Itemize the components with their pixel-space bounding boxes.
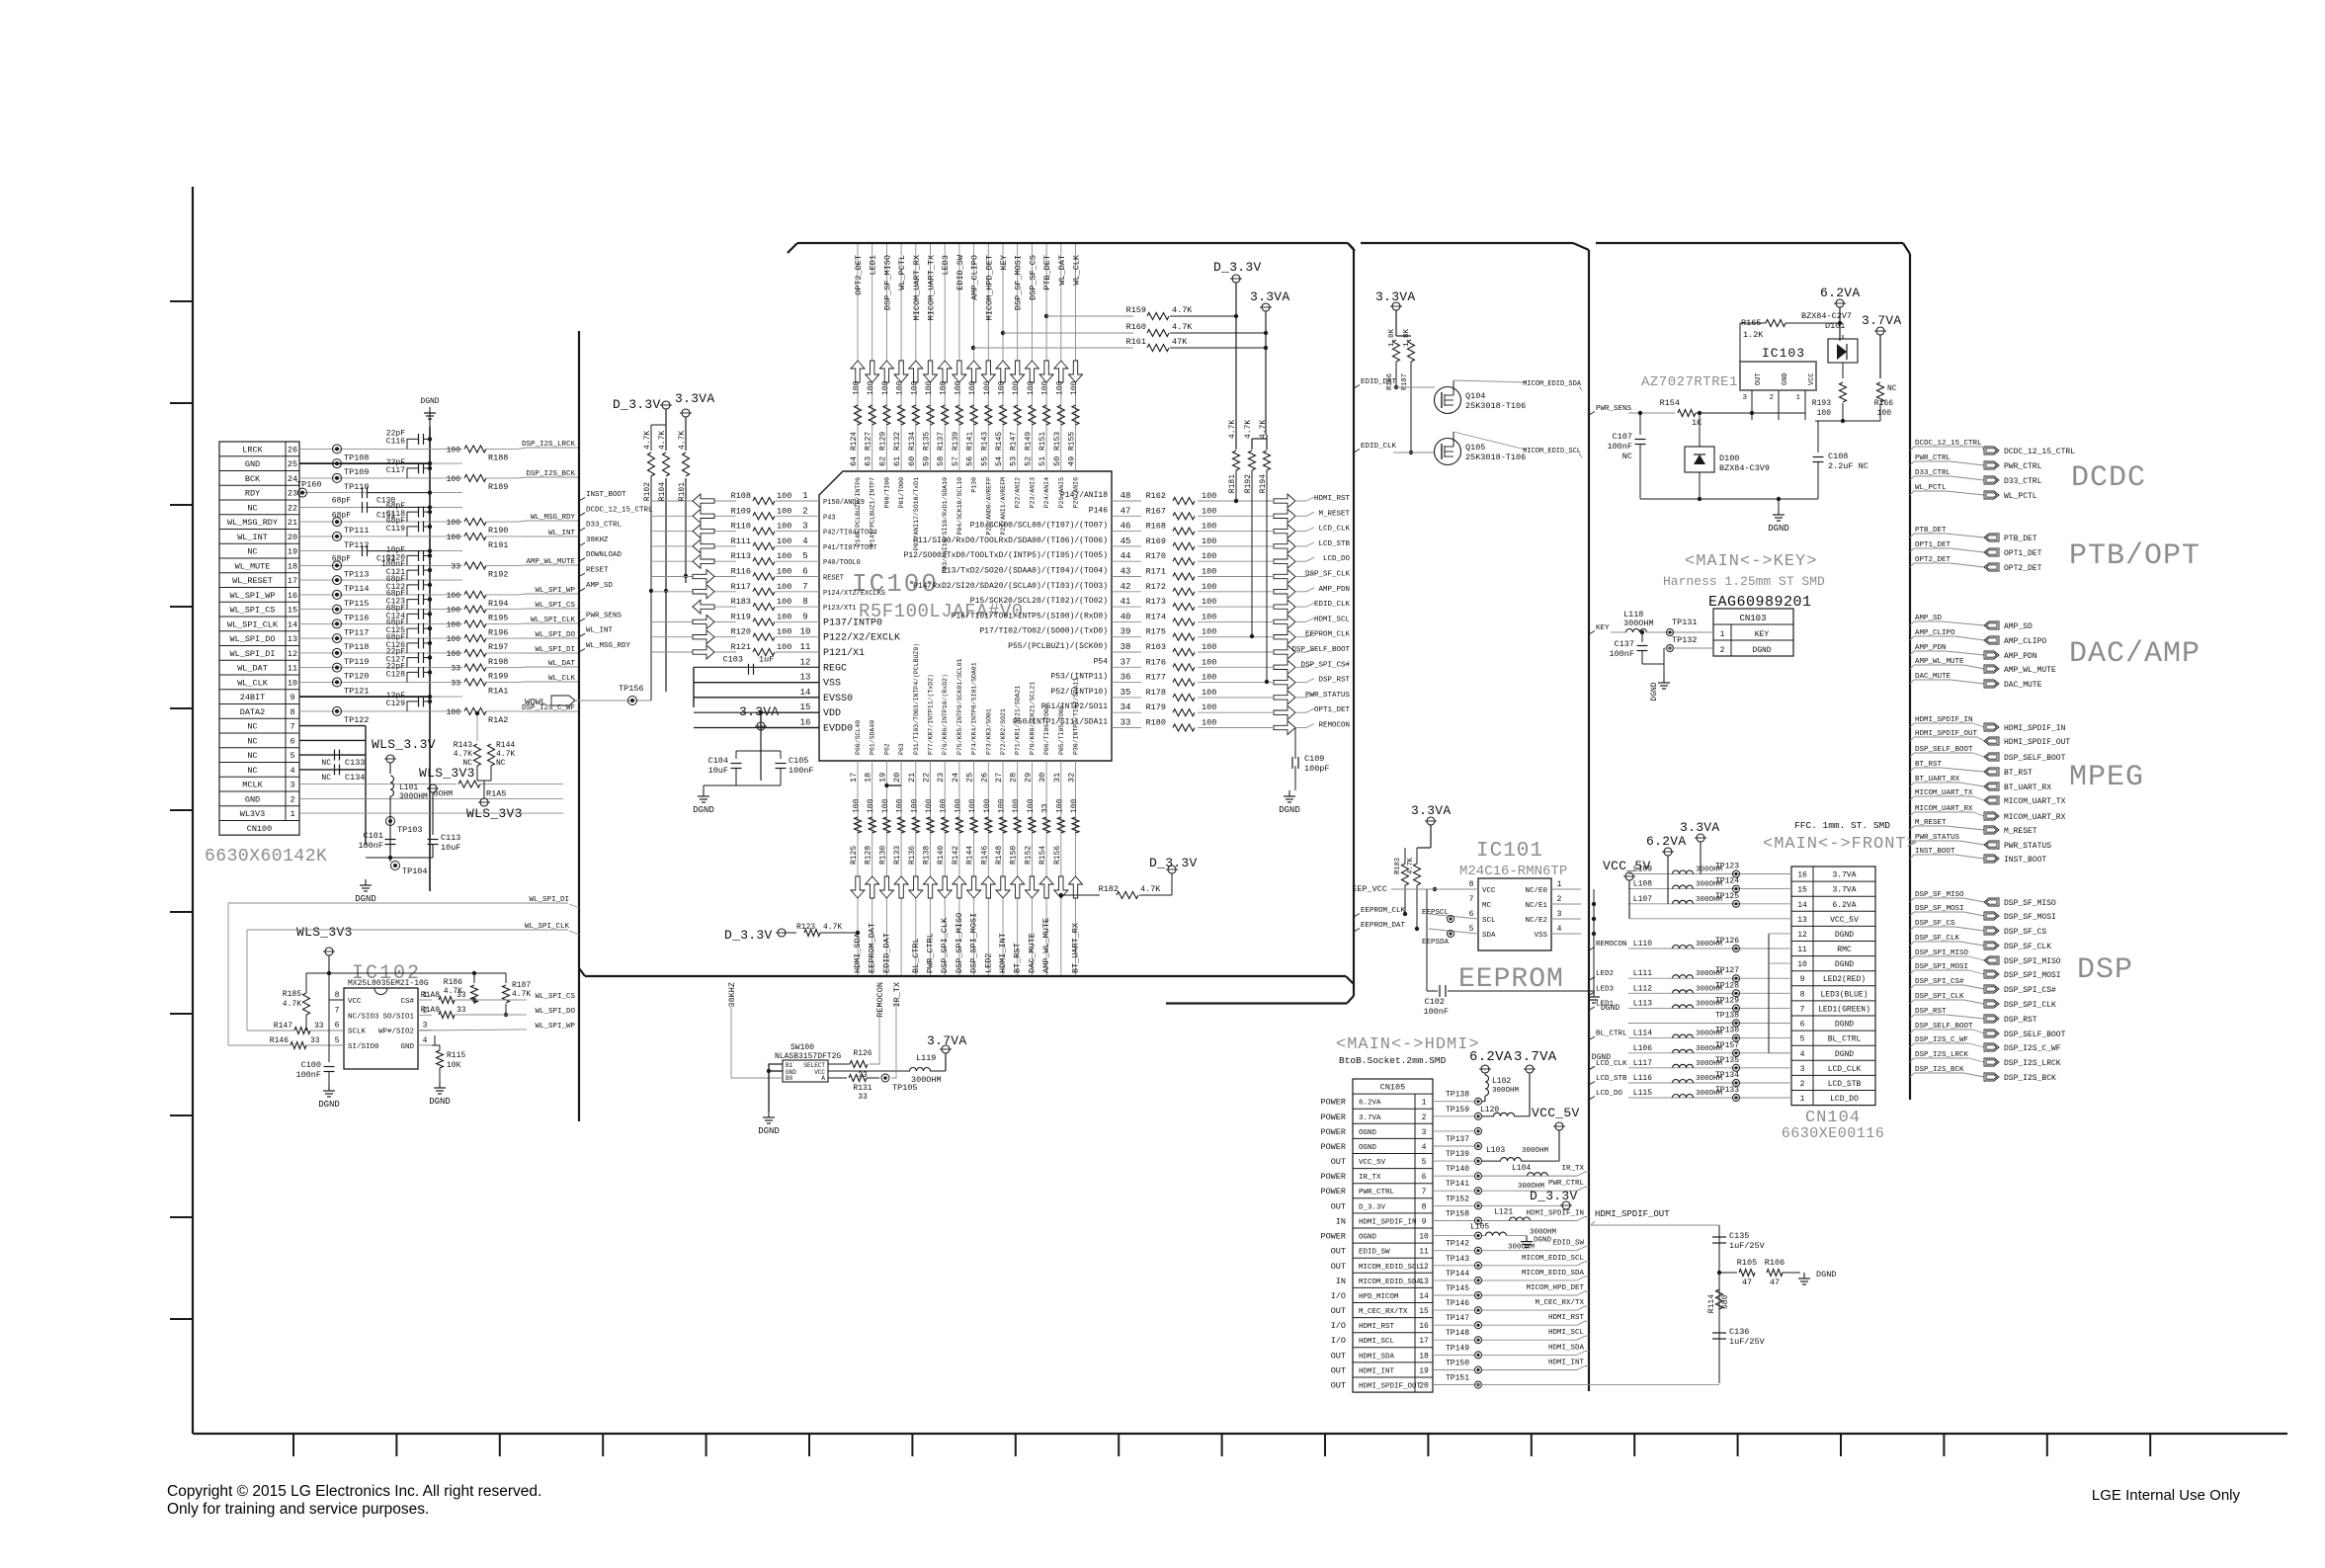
svg-text:C135: C135: [1729, 1231, 1749, 1241]
svg-text:R195: R195: [488, 614, 508, 623]
svg-text:1: 1: [1422, 1099, 1427, 1108]
svg-text:L112: L112: [1633, 984, 1652, 993]
svg-text:LCD_CLK: LCD_CLK: [1828, 1065, 1862, 1074]
svg-text:300OHM: 300OHM: [1522, 1147, 1549, 1155]
svg-text:TP137: TP137: [1446, 1135, 1469, 1144]
svg-text:R108: R108: [731, 491, 751, 501]
svg-text:R131: R131: [853, 1084, 872, 1093]
svg-text:R154: R154: [1660, 398, 1680, 408]
svg-text:R196: R196: [488, 627, 508, 637]
svg-text:L115: L115: [1633, 1089, 1652, 1098]
svg-text:DGND: DGND: [318, 1100, 340, 1110]
svg-text:D_3.3V: D_3.3V: [724, 928, 773, 943]
svg-text:33: 33: [314, 1022, 324, 1031]
svg-text:25K3018-T106: 25K3018-T106: [1465, 453, 1526, 462]
svg-text:R159: R159: [1126, 305, 1146, 315]
svg-text:R161: R161: [1126, 337, 1146, 347]
svg-text:6: 6: [1469, 910, 1474, 919]
svg-text:37: 37: [1121, 657, 1131, 667]
svg-text:TP113: TP113: [344, 569, 370, 579]
svg-text:DGND: DGND: [1835, 960, 1854, 969]
svg-text:100: 100: [447, 708, 461, 717]
svg-text:D33_CTRL: D33_CTRL: [586, 522, 623, 530]
svg-text:30: 30: [1038, 773, 1047, 783]
svg-text:TP147: TP147: [1446, 1314, 1469, 1323]
svg-text:L110: L110: [1633, 940, 1652, 949]
svg-text:5: 5: [290, 751, 294, 761]
svg-text:EEPSCL: EEPSCL: [1422, 909, 1450, 917]
svg-text:SI/SIO0: SI/SIO0: [348, 1043, 379, 1051]
svg-text:4.7K: 4.7K: [1244, 420, 1253, 439]
svg-text:HDMI_SCL: HDMI_SCL: [1359, 1338, 1395, 1346]
svg-text:PTB_DET: PTB_DET: [1042, 255, 1052, 290]
svg-text:P13/TxD2/SO20/(SDAA0)/(TI04)/(: P13/TxD2/SO20/(SDAA0)/(TI04)/(TO04): [942, 567, 1108, 576]
svg-text:P140/PCLBUZ0/INTP6: P140/PCLBUZ0/INTP6: [855, 477, 862, 546]
svg-text:HDMI_SDA: HDMI_SDA: [1548, 1344, 1585, 1352]
svg-text:100: 100: [853, 380, 862, 395]
svg-text:P121/X1: P121/X1: [823, 647, 865, 659]
svg-text:38KHZ: 38KHZ: [586, 536, 609, 544]
svg-text:WL_INT: WL_INT: [237, 533, 268, 542]
svg-text:WL_SPI_DI: WL_SPI_DI: [535, 646, 575, 654]
svg-text:DSP_I2S_C_WF: DSP_I2S_C_WF: [2004, 1044, 2061, 1053]
svg-text:33: 33: [451, 562, 460, 571]
svg-text:LED3: LED3: [1596, 985, 1615, 993]
svg-text:L117: L117: [1633, 1059, 1652, 1068]
svg-text:16: 16: [288, 591, 297, 601]
svg-text:25: 25: [288, 459, 297, 469]
svg-text:DGND: DGND: [420, 397, 439, 406]
svg-text:100: 100: [777, 551, 791, 561]
svg-text:DAC_MUTE: DAC_MUTE: [2004, 681, 2042, 690]
svg-text:EDID_DAT: EDID_DAT: [1361, 378, 1397, 386]
svg-text:100: 100: [447, 635, 461, 644]
svg-text:WL_SPI_DI: WL_SPI_DI: [230, 649, 276, 659]
svg-text:POWER: POWER: [1320, 1142, 1346, 1152]
svg-text:I/O: I/O: [1331, 1321, 1346, 1331]
svg-text:C100: C100: [301, 1060, 321, 1070]
svg-text:EEPROM_DAT: EEPROM_DAT: [1361, 922, 1406, 930]
svg-text:12: 12: [288, 649, 297, 659]
svg-text:MICOM_EDID_SDA: MICOM_EDID_SDA: [1359, 1279, 1422, 1286]
svg-text:21: 21: [907, 773, 917, 783]
svg-text:WLS_3V3: WLS_3V3: [419, 766, 475, 781]
svg-text:4: 4: [290, 766, 294, 776]
svg-text:EEPROM_CLK: EEPROM_CLK: [1305, 631, 1351, 639]
svg-text:58: 58: [936, 456, 946, 466]
svg-text:NC: NC: [496, 759, 506, 768]
svg-text:TP156: TP156: [619, 684, 644, 694]
svg-text:L120: L120: [1480, 1106, 1499, 1114]
svg-text:68pF: 68pF: [332, 497, 351, 506]
svg-text:EEPSDA: EEPSDA: [1422, 939, 1450, 947]
svg-text:28: 28: [1009, 773, 1019, 783]
svg-text:SW100: SW100: [790, 1043, 814, 1052]
svg-text:29: 29: [1023, 773, 1033, 783]
svg-text:3.3VA: 3.3VA: [675, 391, 715, 406]
svg-text:CN105: CN105: [1380, 1083, 1406, 1093]
svg-text:P15/SCK20/SCL20/(TI02)/(TO02): P15/SCK20/SCL20/(TI02)/(TO02): [970, 597, 1108, 606]
svg-text:PWR_CTRL: PWR_CTRL: [2004, 462, 2042, 471]
svg-text:3.3VA: 3.3VA: [1250, 289, 1290, 304]
svg-text:PWR_CTRL: PWR_CTRL: [1359, 1189, 1395, 1197]
svg-text:9: 9: [290, 693, 294, 702]
svg-text:R154: R154: [1038, 846, 1047, 865]
svg-text:18: 18: [1419, 1352, 1429, 1361]
svg-text:DSP_SF_MOSI: DSP_SF_MOSI: [1014, 255, 1024, 310]
svg-text:B1: B1: [786, 1062, 793, 1069]
svg-text:100: 100: [1055, 798, 1064, 813]
svg-text:HDMI_RST: HDMI_RST: [1548, 1314, 1585, 1322]
svg-text:100: 100: [777, 612, 791, 621]
svg-text:D100: D100: [1719, 454, 1739, 463]
svg-text:P06/TI06/TO06: P06/TI06/TO06: [1043, 704, 1050, 755]
svg-text:R194: R194: [488, 599, 508, 609]
svg-text:DSP_SPI_CLK: DSP_SPI_CLK: [2004, 1001, 2056, 1010]
svg-text:45: 45: [1121, 536, 1131, 546]
svg-text:100: 100: [1202, 612, 1216, 621]
svg-text:LCD_DO: LCD_DO: [1323, 555, 1351, 563]
svg-text:WL_SPI_CS: WL_SPI_CS: [230, 606, 276, 616]
svg-text:LED2: LED2: [1596, 970, 1614, 978]
svg-text:VSS: VSS: [823, 679, 841, 690]
svg-text:TP109: TP109: [344, 467, 370, 477]
svg-text:100: 100: [1202, 702, 1216, 712]
svg-text:17: 17: [288, 576, 297, 586]
svg-text:L104: L104: [1512, 1164, 1531, 1173]
svg-text:REMOCON: REMOCON: [1596, 941, 1627, 949]
svg-text:R151: R151: [1038, 432, 1047, 451]
svg-text:R155: R155: [1068, 432, 1077, 451]
svg-text:R117: R117: [731, 582, 751, 592]
svg-text:DGND: DGND: [1752, 646, 1771, 655]
svg-text:3.7VA: 3.7VA: [1359, 1114, 1381, 1122]
svg-text:EEPROM_DAT: EEPROM_DAT: [868, 923, 877, 973]
svg-text:RESET: RESET: [586, 567, 609, 575]
svg-text:R127: R127: [865, 432, 873, 451]
svg-text:SDA: SDA: [1482, 932, 1496, 940]
svg-text:BT_UART_RX: BT_UART_RX: [2004, 784, 2051, 792]
svg-text:R186: R186: [444, 978, 462, 987]
svg-text:OUT: OUT: [1755, 372, 1763, 385]
svg-text:12: 12: [1419, 1263, 1429, 1272]
svg-text:54: 54: [994, 456, 1004, 466]
svg-text:EDID_SW: EDID_SW: [1359, 1249, 1390, 1257]
svg-text:TP118: TP118: [344, 642, 370, 652]
svg-text:DSP_SPI_CS#: DSP_SPI_CS#: [2004, 986, 2056, 995]
svg-text:26: 26: [288, 445, 297, 454]
svg-text:100: 100: [1012, 798, 1021, 813]
svg-text:1K: 1K: [1692, 418, 1702, 428]
svg-text:OUT: OUT: [1331, 1262, 1346, 1272]
svg-text:MICOM_HPD_DET: MICOM_HPD_DET: [984, 255, 994, 320]
svg-text:TP122: TP122: [344, 715, 370, 725]
svg-text:NC/E0: NC/E0: [1525, 887, 1547, 895]
svg-text:GND: GND: [400, 1043, 414, 1051]
svg-text:P24/ANI4: P24/ANI4: [1043, 477, 1050, 508]
svg-text:3: 3: [1800, 1065, 1805, 1074]
svg-text:R152: R152: [1024, 846, 1033, 865]
svg-text:Harness 1.25mm ST SMD: Harness 1.25mm ST SMD: [1663, 574, 1825, 589]
svg-text:16: 16: [1419, 1322, 1429, 1331]
svg-text:14: 14: [800, 688, 811, 698]
svg-text:100: 100: [1202, 597, 1216, 607]
svg-text:LRCK: LRCK: [242, 445, 263, 454]
svg-text:TP130: TP130: [1715, 1027, 1739, 1035]
svg-text:15: 15: [1797, 886, 1807, 895]
svg-text:OUT: OUT: [1331, 1201, 1346, 1211]
svg-text:R144: R144: [966, 846, 975, 865]
svg-text:WL_MUTE: WL_MUTE: [235, 561, 271, 571]
svg-text:42: 42: [1121, 582, 1131, 592]
svg-text:DAC/AMP: DAC/AMP: [2069, 637, 2200, 671]
svg-text:100nF: 100nF: [358, 841, 383, 851]
svg-text:TP158: TP158: [1446, 1210, 1469, 1219]
svg-text:R143: R143: [454, 741, 472, 750]
svg-text:P14/RxD2/SI20/SDA20/(SCLA0)/(T: P14/RxD2/SI20/SDA20/(SCLA0)/(TI03)/(TO03…: [913, 582, 1108, 591]
svg-text:300OHM: 300OHM: [1623, 619, 1654, 628]
svg-text:PWR_STATUS: PWR_STATUS: [1305, 692, 1351, 700]
svg-text:10: 10: [800, 627, 811, 637]
svg-text:R185: R185: [283, 990, 301, 999]
svg-text:AMP_SD: AMP_SD: [586, 582, 614, 590]
svg-text:R145: R145: [995, 432, 1004, 451]
svg-text:CN103: CN103: [1739, 614, 1766, 623]
svg-text:41: 41: [1121, 597, 1131, 607]
svg-text:WOWL: WOWL: [525, 698, 546, 707]
svg-text:100: 100: [447, 607, 461, 616]
svg-text:R166: R166: [1874, 399, 1893, 408]
svg-text:11: 11: [288, 664, 297, 674]
svg-text:100: 100: [867, 380, 875, 395]
svg-text:P04/SCK10/SCL10: P04/SCK10/SCL10: [956, 477, 963, 536]
svg-text:TP126: TP126: [1715, 937, 1739, 946]
svg-text:100: 100: [1202, 536, 1216, 546]
svg-text:C116: C116: [386, 437, 405, 446]
svg-text:BL_CTRL: BL_CTRL: [911, 938, 921, 973]
svg-text:M_CEC_RX/TX: M_CEC_RX/TX: [1535, 1299, 1584, 1307]
svg-text:R168: R168: [1146, 522, 1166, 532]
svg-text:300OHM: 300OHM: [399, 792, 428, 801]
svg-text:WL_INT: WL_INT: [548, 530, 576, 537]
svg-text:5: 5: [1800, 1035, 1805, 1044]
svg-text:B0: B0: [786, 1075, 793, 1082]
svg-text:P16/TI01/TO01/INTP5/(SI00)/(Rx: P16/TI01/TO01/INTP5/(SI00)/(RxD0): [952, 612, 1108, 620]
svg-text:LED3: LED3: [941, 255, 951, 275]
svg-text:16: 16: [1797, 871, 1807, 880]
svg-text:100: 100: [940, 380, 949, 395]
svg-text:P25/ANI5: P25/ANI5: [1058, 477, 1065, 508]
svg-text:PWR_SENS: PWR_SENS: [586, 612, 623, 619]
svg-text:BT_RST: BT_RST: [2004, 769, 2033, 778]
svg-text:100: 100: [447, 519, 461, 528]
svg-text:1uF/25V: 1uF/25V: [1729, 1241, 1766, 1251]
svg-text:1uF/25V: 1uF/25V: [1729, 1337, 1766, 1347]
svg-text:7: 7: [1800, 1005, 1805, 1014]
svg-text:100pF: 100pF: [1304, 764, 1330, 774]
svg-text:WL_SPI_WP: WL_SPI_WP: [230, 591, 276, 601]
svg-text:DSP_I2S_BCK: DSP_I2S_BCK: [526, 470, 575, 478]
svg-text:100: 100: [1202, 627, 1216, 637]
svg-text:59: 59: [922, 456, 932, 466]
svg-text:MICOM_EDID_SDA: MICOM_EDID_SDA: [1523, 380, 1582, 388]
svg-text:LED3(BLUE): LED3(BLUE): [1820, 990, 1868, 999]
svg-text:6.2VA: 6.2VA: [1820, 286, 1861, 300]
svg-text:P05/TI05/TO05: P05/TI05/TO05: [1058, 704, 1065, 755]
svg-text:38: 38: [1121, 642, 1131, 652]
svg-text:WL_CLK: WL_CLK: [237, 678, 269, 688]
svg-text:RDY: RDY: [245, 489, 260, 499]
svg-text:HDMI_SDA: HDMI_SDA: [853, 932, 863, 973]
svg-text:68pF: 68pF: [332, 511, 351, 520]
svg-text:WL_RESET: WL_RESET: [232, 576, 273, 586]
svg-text:NC: NC: [247, 722, 257, 732]
svg-text:2: 2: [802, 506, 807, 516]
svg-text:NC: NC: [247, 766, 257, 776]
svg-text:C105: C105: [789, 756, 808, 766]
svg-text:R175: R175: [1146, 627, 1166, 637]
svg-text:WP#/SIO2: WP#/SIO2: [378, 1029, 414, 1036]
svg-text:7: 7: [335, 1006, 340, 1015]
svg-text:R199: R199: [488, 672, 508, 682]
svg-text:R160: R160: [1126, 322, 1146, 332]
svg-text:R115: R115: [447, 1051, 465, 1060]
svg-text:P70/KR0/SCK21/SCL21: P70/KR0/SCK21/SCL21: [1029, 682, 1036, 755]
svg-text:MICOM_EDID_SCL: MICOM_EDID_SCL: [1522, 1255, 1585, 1263]
svg-text:R124: R124: [850, 432, 859, 451]
svg-text:MICOM_UART_TX: MICOM_UART_TX: [927, 255, 937, 320]
svg-text:SO/SIO1: SO/SIO1: [382, 1013, 414, 1021]
svg-text:33: 33: [858, 1093, 868, 1102]
svg-text:3.3VA: 3.3VA: [1411, 803, 1452, 818]
svg-text:OUT: OUT: [1331, 1306, 1346, 1316]
svg-text:R170: R170: [1146, 551, 1166, 561]
svg-text:TP129: TP129: [1715, 996, 1739, 1005]
svg-text:47: 47: [1742, 1278, 1752, 1287]
svg-text:13: 13: [288, 634, 297, 644]
svg-text:P17/TI02/TO02/(SO00)/(TxD0): P17/TI02/TO02/(SO00)/(TxD0): [979, 627, 1108, 636]
svg-text:6.2VA: 6.2VA: [1832, 901, 1856, 910]
svg-text:C113: C113: [441, 833, 460, 843]
svg-text:R147: R147: [1010, 432, 1019, 451]
svg-text:8: 8: [802, 597, 807, 607]
svg-text:39: 39: [1121, 627, 1131, 637]
svg-text:BL_CTRL: BL_CTRL: [1596, 1031, 1627, 1038]
svg-text:7: 7: [1469, 895, 1474, 904]
svg-text:P43: P43: [823, 514, 836, 522]
svg-text:18: 18: [288, 561, 297, 571]
svg-text:C128: C128: [386, 670, 405, 679]
svg-text:NC/SIO3: NC/SIO3: [348, 1013, 379, 1021]
svg-text:R148: R148: [995, 846, 1004, 865]
svg-text:LCD_STB: LCD_STB: [1596, 1075, 1627, 1083]
svg-text:DOWNLOAD: DOWNLOAD: [586, 551, 623, 559]
svg-text:IN: IN: [1336, 1217, 1346, 1227]
svg-text:47: 47: [1770, 1278, 1780, 1287]
svg-text:100: 100: [881, 380, 890, 395]
svg-text:NC: NC: [247, 547, 257, 557]
svg-text:R1A5: R1A5: [486, 789, 506, 799]
svg-text:100: 100: [910, 380, 919, 395]
svg-text:22: 22: [922, 773, 932, 783]
svg-text:AMP_WL_MUTE: AMP_WL_MUTE: [526, 558, 575, 566]
svg-text:4.7K: 4.7K: [678, 431, 687, 450]
svg-text:WL_CLK: WL_CLK: [1072, 254, 1082, 286]
svg-text:TP116: TP116: [344, 614, 370, 623]
svg-text:1.2K: 1.2K: [1743, 330, 1764, 340]
svg-text:1uF: 1uF: [759, 654, 774, 664]
svg-text:P72/KR2/SO21: P72/KR2/SO21: [1000, 708, 1007, 755]
svg-text:TP138: TP138: [1715, 1012, 1739, 1021]
svg-text:DSP_SELF_BOOT: DSP_SELF_BOOT: [1291, 646, 1350, 654]
svg-text:KEY: KEY: [1596, 624, 1610, 632]
svg-text:HDMI_INT: HDMI_INT: [1548, 1360, 1585, 1367]
svg-text:P74/KR4/INTP8/SI01/SDA01: P74/KR4/INTP8/SI01/SDA01: [971, 662, 978, 755]
svg-text:24: 24: [951, 773, 960, 783]
svg-text:WL_SPI_DO: WL_SPI_DO: [535, 631, 575, 639]
svg-text:38KHZ: 38KHZ: [727, 982, 737, 1008]
svg-text:IN: IN: [1336, 1277, 1346, 1286]
svg-text:CN100: CN100: [247, 824, 273, 834]
svg-text:NC/E2: NC/E2: [1525, 917, 1547, 925]
svg-text:2: 2: [290, 794, 294, 804]
svg-text:62: 62: [877, 456, 887, 466]
svg-text:4: 4: [1800, 1050, 1805, 1059]
svg-text:100nF: 100nF: [1609, 649, 1634, 659]
svg-text:HDMI_SPDIF_IN: HDMI_SPDIF_IN: [1359, 1219, 1417, 1227]
svg-text:HDMI_SPDIF_OUT: HDMI_SPDIF_OUT: [1595, 1209, 1670, 1219]
svg-text:BZX84-C3V9: BZX84-C3V9: [1719, 463, 1770, 473]
svg-text:C119: C119: [386, 525, 405, 534]
svg-text:I/O: I/O: [1331, 1336, 1346, 1346]
svg-text:CS#: CS#: [400, 998, 414, 1006]
svg-text:100: 100: [447, 446, 461, 454]
svg-text:WLS_3V3: WLS_3V3: [466, 806, 523, 821]
svg-text:100: 100: [777, 582, 791, 592]
svg-text:9: 9: [1422, 1218, 1427, 1227]
svg-text:OGND: OGND: [1359, 1234, 1377, 1242]
svg-text:IR_TX: IR_TX: [892, 982, 902, 1008]
svg-text:EDID_SW: EDID_SW: [1552, 1240, 1584, 1248]
svg-text:19: 19: [288, 547, 297, 557]
svg-text:TP105: TP105: [892, 1083, 918, 1093]
svg-text:POWER: POWER: [1320, 1187, 1346, 1197]
svg-text:PWR_CTRL: PWR_CTRL: [1548, 1180, 1585, 1188]
svg-text:100: 100: [1202, 551, 1216, 561]
svg-text:3: 3: [1557, 910, 1562, 919]
svg-text:5: 5: [802, 551, 807, 561]
svg-text:MICOM_HPD_DET: MICOM_HPD_DET: [1526, 1284, 1584, 1292]
svg-text:POWER: POWER: [1320, 1172, 1346, 1182]
svg-text:LCD_STB: LCD_STB: [1828, 1080, 1862, 1089]
svg-text:36: 36: [1121, 673, 1131, 683]
svg-text:P54: P54: [1094, 657, 1109, 666]
svg-text:4: 4: [1422, 1143, 1427, 1152]
svg-text:DGND: DGND: [1835, 1021, 1854, 1030]
svg-text:15: 15: [1419, 1307, 1429, 1316]
svg-text:HPD_MICOM: HPD_MICOM: [1359, 1293, 1399, 1301]
svg-text:MC: MC: [1482, 902, 1492, 910]
svg-text:R133: R133: [893, 846, 902, 865]
svg-text:IR_TX: IR_TX: [1359, 1174, 1381, 1182]
svg-text:R110: R110: [731, 522, 751, 532]
svg-text:NC: NC: [247, 751, 257, 761]
svg-text:R187: R187: [512, 981, 531, 990]
svg-text:DGND: DGND: [1768, 524, 1789, 534]
svg-text:20: 20: [892, 773, 902, 783]
svg-text:IC101: IC101: [1476, 840, 1543, 863]
svg-text:33: 33: [451, 679, 460, 688]
